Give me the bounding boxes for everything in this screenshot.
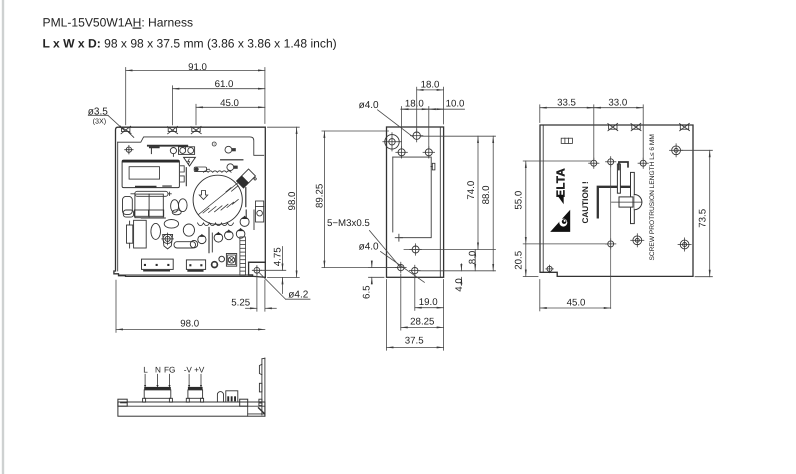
pin block front [226, 391, 238, 402]
connector 2 [186, 260, 205, 271]
leader dia 4.0 top [378, 110, 414, 138]
svg-text:4.75: 4.75 [273, 247, 284, 266]
rear screw br [678, 238, 691, 251]
svg-text:33.0: 33.0 [608, 97, 627, 108]
svg-text:33.5: 33.5 [557, 97, 576, 108]
terminal leaders [144, 374, 202, 387]
svg-text:(3X): (3X) [93, 116, 107, 125]
rounded bar low [174, 242, 196, 248]
side view body [387, 127, 444, 277]
T component [150, 146, 159, 148]
output cap 1 [236, 230, 245, 239]
svg-text:+V: +V [194, 366, 205, 375]
svg-text:10.0: 10.0 [446, 98, 465, 109]
rear screw r1c [638, 158, 648, 168]
svg-text:FG: FG [164, 366, 175, 375]
dim 6.5 [369, 267, 397, 269]
grey bar 2 [142, 217, 166, 219]
right wall component [256, 201, 264, 222]
dim 8.0 [474, 250, 476, 271]
rear screw r1a [589, 158, 599, 168]
output cap 5 [190, 241, 197, 248]
rear screw bm [631, 234, 644, 247]
dim 37.5 [386, 280, 388, 351]
rear tab 3 [680, 123, 690, 130]
svg-text:18.0: 18.0 [421, 79, 440, 90]
corner hole 4.2 [252, 266, 261, 275]
wire v1 [208, 227, 210, 252]
ladder strip [240, 237, 246, 275]
tilted diode pack [237, 169, 258, 190]
side screw row2 right [423, 147, 435, 159]
dim 20.5 [523, 275, 538, 277]
dim 5.25 [256, 274, 258, 311]
resistor vertical [127, 221, 133, 248]
mount notch 2 [167, 126, 177, 133]
connector 1 [142, 259, 174, 271]
dim 61.0 [172, 88, 265, 90]
dim 45.0 [196, 106, 265, 108]
side screw center [410, 244, 422, 256]
transformer clips [180, 166, 184, 182]
svg-text:45.0: 45.0 [220, 98, 239, 109]
svg-text:89.25: 89.25 [314, 184, 325, 208]
svg-text:73.5: 73.5 [698, 209, 709, 228]
din rail clip [598, 162, 642, 224]
cap cyl A [123, 196, 133, 214]
cap block pair [135, 194, 163, 218]
dim 4.0 [460, 264, 462, 271]
top view cover seam [118, 137, 264, 155]
dim 55.0 [523, 160, 591, 162]
film cap E [183, 224, 194, 236]
leader dia 4.0 bottom [381, 252, 425, 283]
dim 18.0 and 10.0 [401, 107, 403, 148]
svg-text:ELTA: ELTA [555, 168, 568, 198]
busbar [148, 145, 187, 147]
page left rule [2, 0, 4, 474]
rear view body [540, 125, 693, 276]
dim 88.0 [420, 270, 496, 272]
standoff screw [162, 233, 174, 249]
front view base rail [118, 399, 265, 416]
rear centerline [610, 163, 612, 309]
film cap D [164, 220, 178, 229]
inductor bar [131, 191, 171, 196]
svg-text:ø4.0: ø4.0 [359, 100, 379, 111]
terminal block 2 [186, 387, 203, 402]
big cap arrow mark [199, 191, 207, 200]
svg-text:CAUTION !: CAUTION ! [581, 181, 590, 223]
small caps row [123, 210, 181, 217]
svg-text:PML-15V50W1AH: Harness: PML-15V50W1AH: Harness [43, 16, 194, 30]
svg-text:55.0: 55.0 [514, 190, 525, 209]
rear screw bl [546, 265, 554, 273]
svg-text:74.0: 74.0 [466, 180, 477, 199]
leader dia 3.5 [88, 114, 108, 116]
svg-text:19.0: 19.0 [419, 297, 438, 308]
side cutout [393, 157, 431, 241]
svg-text:5.25: 5.25 [231, 297, 250, 308]
side screw top [411, 130, 423, 142]
dim 18.0 top [416, 87, 418, 131]
dim 28.25 [400, 274, 402, 330]
svg-text:20.5: 20.5 [514, 251, 525, 270]
svg-text:18.0: 18.0 [405, 98, 424, 109]
svg-text:61.0: 61.0 [215, 79, 234, 90]
rear screw bc [606, 239, 616, 249]
rear screw r1b [606, 157, 616, 167]
svg-text:ø4.0: ø4.0 [359, 242, 379, 253]
rear tab 1 [608, 123, 618, 130]
dim 91.0 [125, 68, 127, 125]
film caps pair [171, 200, 179, 213]
trimmer [226, 254, 236, 267]
vertical wire [185, 168, 187, 186]
pcb hole dot [212, 142, 216, 146]
svg-text:5−M3x0.5: 5−M3x0.5 [327, 218, 370, 229]
wire v2 [211, 233, 213, 252]
cap cylinder front [217, 392, 223, 402]
output cap 4 [198, 235, 206, 243]
warning triangle [184, 157, 196, 166]
svg-text:45.0: 45.0 [567, 297, 586, 308]
corner screw crosshair [125, 146, 133, 154]
svg-text:98.0: 98.0 [287, 191, 298, 210]
side ear hole [383, 133, 401, 151]
side screw bottom right [409, 265, 420, 276]
dim 19.0 [414, 274, 416, 310]
big cap hatch [199, 180, 243, 215]
svg-text:8.0: 8.0 [467, 250, 478, 264]
delta logo triangle [550, 210, 570, 232]
dim 4.75 [262, 269, 286, 271]
svg-text:L x W x D: 98 x 98 x 37.5 mm (: L x W x D: 98 x 98 x 37.5 mm (3.86 x 3.8… [43, 37, 337, 51]
dim 98.0 right [268, 126, 300, 128]
dim 98.0 bottom [115, 280, 117, 332]
big capacitor [193, 175, 242, 224]
svg-text:6.5: 6.5 [361, 285, 372, 298]
cap with tab A [225, 146, 232, 153]
tall block [134, 220, 147, 248]
top view chassis outline [114, 127, 265, 277]
dim 89.25 [322, 130, 389, 132]
wire along right wall [253, 210, 255, 230]
svg-text:28.25: 28.25 [410, 317, 434, 328]
svg-text:37.5: 37.5 [405, 336, 424, 347]
wavy wire [204, 171, 232, 173]
leader M3 screws [370, 231, 401, 267]
svg-text:ø4.2: ø4.2 [288, 290, 308, 301]
svg-text:L: L [143, 366, 148, 375]
output cap 2 [225, 231, 234, 240]
dim 74.0 [421, 135, 496, 137]
twin circle box [179, 147, 195, 155]
svg-text:98.0: 98.0 [180, 318, 199, 329]
transformer [122, 160, 179, 188]
rear flange side [259, 358, 265, 416]
rear tab 2 [631, 123, 641, 130]
svg-text:SCREW PROTRUSION LENGTH L≤ 6: SCREW PROTRUSION LENGTH L≤ 6 MM [649, 134, 656, 260]
rear screw tr [670, 144, 683, 157]
big cap bottom crimp [198, 223, 234, 226]
svg-text:88.0: 88.0 [481, 185, 492, 204]
small cylinder [194, 167, 209, 172]
output cap 3 [214, 234, 223, 243]
film cap C [151, 223, 161, 239]
cap with tab B [227, 164, 234, 171]
side screw bottom left [395, 262, 406, 273]
dim 73.5 [681, 149, 713, 151]
side screw row2 left [396, 147, 408, 159]
leader dia 4.2 [259, 273, 285, 300]
dim 33.5 and 33.0 [539, 105, 541, 123]
terminal block 1 [143, 387, 173, 402]
mount notch 1 [121, 126, 134, 137]
wire v3 [245, 210, 247, 217]
side small latch [431, 163, 435, 170]
svg-text:-V: -V [184, 366, 193, 375]
fuse circle [170, 148, 176, 154]
ring thick [212, 262, 218, 268]
ring small [219, 256, 225, 262]
rear vent [561, 138, 572, 143]
dim 45.0 [539, 280, 541, 311]
svg-text:N: N [155, 366, 161, 375]
svg-text:4.0: 4.0 [454, 278, 465, 292]
output cap big [240, 217, 249, 226]
svg-text:91.0: 91.0 [188, 62, 207, 73]
grey bar [221, 159, 243, 161]
mount notch 3 [191, 126, 201, 133]
wire bar right of cap [245, 188, 247, 207]
